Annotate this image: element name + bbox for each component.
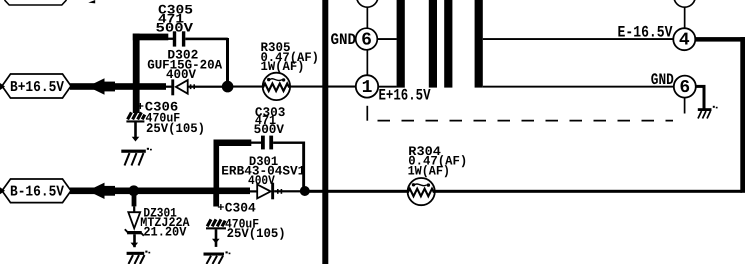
wire DZ301 to ground bbox=[133, 234, 136, 247]
svg-text:GND: GND bbox=[331, 31, 357, 49]
capacitor C303 bbox=[254, 105, 286, 150]
svg-text:6: 6 bbox=[679, 78, 690, 98]
pin 6 (GND, right) bbox=[674, 76, 696, 99]
pin circle partial (top edge, left column) bbox=[357, 0, 378, 7]
svg-text:E+16.5V: E+16.5V bbox=[379, 87, 431, 105]
wire between pin 6 and pin 1 bbox=[367, 50, 369, 76]
wire winding to pin 6 right bbox=[483, 86, 674, 88]
transformer core bar 2 bbox=[429, 0, 437, 88]
wire between top pin and pin 4 bbox=[684, 8, 686, 28]
svg-text:B+16.5V: B+16.5V bbox=[10, 79, 64, 96]
wire C303 drop to node bbox=[302, 142, 305, 192]
svg-text:400V: 400V bbox=[166, 67, 196, 82]
svg-text:+: + bbox=[137, 100, 144, 114]
svg-text:500V: 500V bbox=[156, 21, 194, 36]
resistor R305 (fusible) bbox=[261, 40, 320, 100]
wire between top pin and pin 6 bbox=[367, 8, 369, 29]
transformer core bar 3 bbox=[444, 0, 452, 88]
svg-text:1W(AF): 1W(AF) bbox=[408, 163, 450, 178]
diode D302 bbox=[147, 47, 222, 95]
pin 6 (GND, left) bbox=[356, 28, 378, 50]
capacitor C306 (electrolytic) bbox=[126, 99, 205, 136]
wire D302 anode to node bbox=[188, 86, 224, 88]
svg-text:1W(AF): 1W(AF) bbox=[261, 59, 305, 74]
wire B+ thick rail (hexagon to D302 cathode) bbox=[70, 83, 166, 90]
wire C305 drop to node bbox=[226, 38, 229, 87]
dashed module border: left vertical bbox=[366, 106, 368, 121]
dashed module border: right vertical bbox=[684, 98, 686, 114]
svg-text:500V: 500V bbox=[254, 122, 285, 137]
connector hexagon B+16.5V bbox=[2, 74, 71, 98]
wire C303 right branch bbox=[273, 142, 303, 144]
zener diode DZ301 bbox=[125, 194, 190, 239]
wire C305 right branch bbox=[185, 38, 228, 41]
partial hexagon connector (cut off at top edge) bbox=[5, 0, 67, 5]
svg-text:400V: 400V bbox=[248, 173, 275, 188]
wire C305 top branch bbox=[133, 34, 169, 41]
wire C303 top branch bbox=[214, 140, 252, 147]
connector hexagon B-16.5V bbox=[2, 179, 71, 203]
svg-text:6: 6 bbox=[361, 30, 372, 50]
svg-text:GND: GND bbox=[651, 71, 674, 89]
wire B- rail thin (node to R304 to right edge) bbox=[308, 190, 742, 193]
svg-text:+: + bbox=[217, 201, 224, 215]
node D301/C303 junction dot bbox=[300, 186, 310, 196]
pin 1 (E+16.5V) bbox=[356, 75, 378, 98]
wire pin1 to winding bbox=[378, 86, 397, 88]
svg-text:B-16.5V: B-16.5V bbox=[10, 184, 64, 201]
chassis ground below C306 bbox=[121, 148, 152, 166]
partial arrow tip (cut off at top edge) bbox=[88, 0, 95, 3]
wire C304 to ground bbox=[215, 229, 218, 247]
svg-text:25V(105): 25V(105) bbox=[146, 121, 205, 136]
svg-text:25V(105): 25V(105) bbox=[227, 226, 286, 241]
chassis ground below DZ301 bbox=[127, 251, 151, 264]
wire D301 cathode to node bbox=[274, 190, 302, 192]
svg-text:C304: C304 bbox=[225, 201, 256, 216]
arrowhead on B- rail pointing left bbox=[88, 183, 105, 199]
capacitor C304 (electrolytic) bbox=[206, 194, 286, 241]
thick wire pin4 to right edge bbox=[695, 37, 745, 42]
left edge arrowhead at B- hexagon tip bbox=[0, 187, 5, 194]
dashed module border: bottom dashes bbox=[378, 120, 674, 122]
chassis ground right bbox=[698, 106, 718, 119]
transformer winding bar 1 bbox=[397, 0, 405, 88]
diode D301 bbox=[221, 154, 305, 199]
vertical thick wire C303-corner through rail to C304 bbox=[214, 140, 220, 207]
wire node to R305 and R305 to pin 1 bbox=[230, 86, 356, 88]
node D302 anode junction dot bbox=[222, 81, 234, 93]
vertical thick wire C305-corner through rail to C306 bbox=[133, 34, 140, 114]
chassis ground below C304 bbox=[204, 251, 231, 264]
left edge arrowhead at B+ hexagon tip bbox=[0, 83, 5, 90]
svg-text:E-16.5V: E-16.5V bbox=[618, 23, 673, 41]
pin 4 (E-16.5V) bbox=[673, 28, 695, 51]
main vertical bus wire bbox=[322, 0, 328, 264]
wire pin6R to ground bbox=[696, 85, 706, 88]
wire winding to pin 4 bbox=[483, 38, 674, 40]
wire C306 to ground bbox=[134, 123, 137, 140]
svg-text:1: 1 bbox=[362, 78, 373, 98]
transformer winding bar 4 bbox=[475, 0, 483, 88]
capacitor C305 bbox=[156, 3, 194, 47]
wire pin6 to winding bbox=[377, 38, 397, 40]
svg-text:4: 4 bbox=[679, 31, 690, 51]
svg-text:21.20V: 21.20V bbox=[143, 224, 186, 239]
resistor R304 (fusible) bbox=[408, 144, 468, 205]
pin circle partial (top edge, right column) bbox=[674, 0, 695, 7]
wire B- thick rail (hexagon to D301 anode) bbox=[70, 188, 250, 195]
node DZ301 junction dot bbox=[128, 185, 139, 196]
arrowhead on B+ rail pointing left bbox=[88, 78, 105, 94]
right edge vertical thick wire bbox=[740, 37, 745, 193]
